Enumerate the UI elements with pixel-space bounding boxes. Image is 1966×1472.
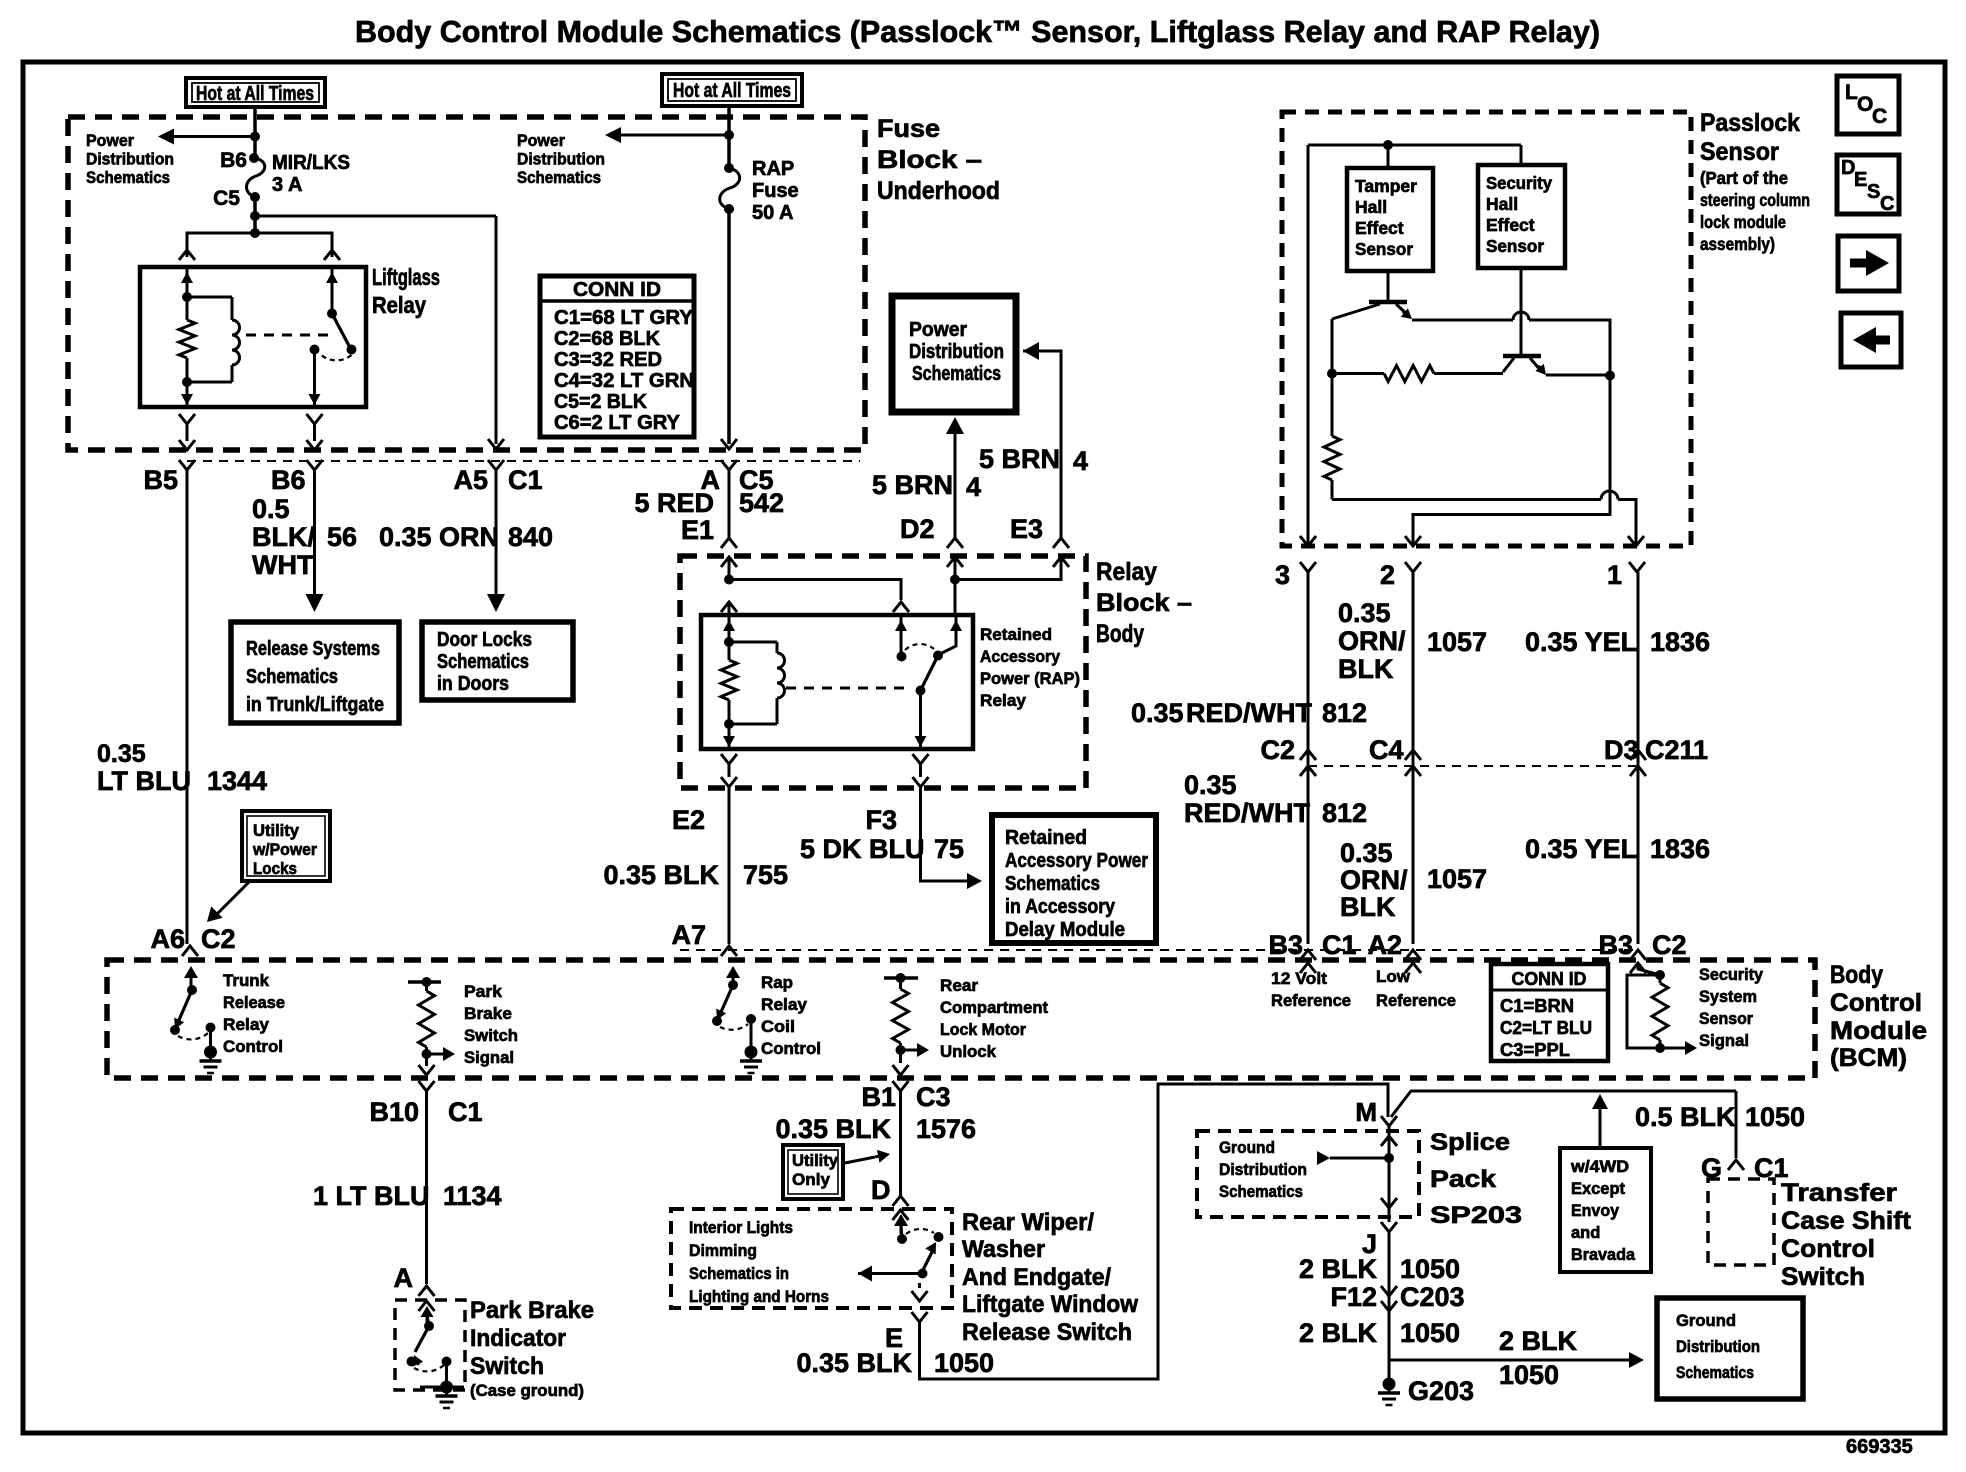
connector chevrons M xyxy=(1381,1136,1397,1146)
svg-text:Lighting and Horns: Lighting and Horns xyxy=(689,1287,829,1306)
wire label: 4 (D2) xyxy=(966,472,981,502)
label: pin 2 xyxy=(1380,560,1395,590)
label: F3 xyxy=(865,805,897,835)
wire label: 2 BLK (g203) xyxy=(1299,1318,1378,1348)
svg-text:M: M xyxy=(1355,1097,1377,1127)
wire: RAP switch to F3 exit xyxy=(915,691,927,750)
wire+arrow into power distribution box xyxy=(1023,342,1061,538)
svg-text:B3: B3 xyxy=(1268,930,1303,960)
svg-text:1836: 1836 xyxy=(1650,834,1710,864)
svg-text:Door Locks: Door Locks xyxy=(437,629,532,651)
tamper hall effect sensor box xyxy=(1347,168,1433,271)
arrow: utility note to trunk wire xyxy=(207,881,250,922)
label: B6 (fuse terminal) xyxy=(220,149,247,172)
svg-text:2: 2 xyxy=(1380,560,1395,590)
arrow: ground distribution to splice wire xyxy=(1317,1151,1394,1165)
svg-text:Rear: Rear xyxy=(940,976,978,995)
svg-text:Hot at All Times: Hot at All Times xyxy=(673,80,791,102)
wire label: 1057 (upper) xyxy=(1427,627,1487,657)
wire+arrow: to Power Distribution Schematics (left) xyxy=(158,129,255,145)
utility only box xyxy=(783,1145,843,1199)
connector D2 into relay block xyxy=(947,538,963,567)
svg-text:75: 75 xyxy=(934,834,964,864)
svg-text:Sensor: Sensor xyxy=(1700,138,1779,166)
wire: D2 down to RAP relay xyxy=(954,557,957,615)
wire label: 0.35 BLK xyxy=(603,860,719,890)
wire label: 755 xyxy=(743,860,788,890)
retained accessory power schematics box xyxy=(992,815,1156,943)
svg-text:Schematics: Schematics xyxy=(912,363,1001,385)
transistor Q1 left leg xyxy=(1332,304,1380,319)
svg-text:C1: C1 xyxy=(1322,930,1357,960)
junction dot left node xyxy=(1327,369,1337,379)
junction dot liftglass coil bottom xyxy=(182,377,192,387)
svg-text:12 Volt: 12 Volt xyxy=(1271,969,1327,988)
wire: E1 drop into relay box xyxy=(728,602,731,615)
svg-text:Release: Release xyxy=(223,993,285,1012)
transistor Q1 bar xyxy=(1369,300,1407,305)
label: C2 xyxy=(1260,735,1295,765)
label box: Hot at All Times (right) xyxy=(662,74,802,106)
connector arrow pin 1 xyxy=(1628,536,1644,546)
svg-text:Compartment: Compartment xyxy=(940,998,1048,1017)
connector chevron G/C1 xyxy=(1728,1160,1744,1170)
wire label: 1134 xyxy=(443,1181,502,1211)
arrow: utility only to B1 wire xyxy=(845,1150,890,1163)
wire: supply to security sensor xyxy=(1520,145,1523,165)
connector chevron into RAP relay coil side xyxy=(721,602,737,612)
svg-text:D3: D3 xyxy=(1604,735,1639,765)
RAP relay actuator dashed link xyxy=(786,687,908,690)
release systems schematics box xyxy=(231,622,399,723)
liftglass relay switch throw dashed arc xyxy=(319,353,352,360)
label: A6 xyxy=(150,924,185,954)
text: Park Brake Indicator Switch xyxy=(470,1297,594,1380)
svg-text:Delay Module: Delay Module xyxy=(1005,919,1125,941)
text: (Case ground) xyxy=(470,1382,584,1400)
park brake indicator switch dashed box xyxy=(395,1300,465,1390)
DESC button xyxy=(1837,155,1899,215)
wire label: 5 BRN (E3) xyxy=(979,444,1060,474)
text: Power Distribution Schematics (mid) xyxy=(517,131,605,187)
svg-text:1057: 1057 xyxy=(1427,627,1487,657)
svg-text:Signal: Signal xyxy=(1699,1031,1749,1050)
svg-text:Tamper: Tamper xyxy=(1355,176,1417,196)
label: C5 (rap) xyxy=(739,465,774,495)
wire label: 0.35 YEL (lower) xyxy=(1525,834,1637,864)
junction dot park brake signal xyxy=(422,1049,432,1059)
svg-text:Schematics: Schematics xyxy=(517,168,601,187)
svg-text:C2=68 BLK: C2=68 BLK xyxy=(554,328,661,350)
junction dot rear compartment xyxy=(896,1045,906,1055)
svg-text:w/Power: w/Power xyxy=(252,841,318,859)
wire: pin 3 down to BCM xyxy=(1307,572,1310,944)
wire label: 812 (lower) xyxy=(1322,798,1367,828)
label: C2 (a6) xyxy=(201,924,236,954)
svg-text:1 LT BLU: 1 LT BLU xyxy=(313,1181,430,1211)
junction dot passlock supply xyxy=(1383,140,1393,150)
svg-text:C211: C211 xyxy=(1645,735,1708,765)
svg-text:assembly): assembly) xyxy=(1700,234,1775,254)
svg-text:Distribution: Distribution xyxy=(1676,1337,1760,1356)
passlock lower-left resistor xyxy=(1324,374,1340,500)
svg-text:C6=2 LT GRY: C6=2 LT GRY xyxy=(554,412,681,434)
svg-text:Brake: Brake xyxy=(464,1004,512,1023)
label: C1 xyxy=(508,465,543,495)
label: E3 xyxy=(1010,514,1043,544)
connector Y A5/C1 xyxy=(488,460,504,470)
label: A (park brake) xyxy=(394,1263,414,1293)
text: Park Brake Switch Signal xyxy=(464,982,518,1067)
label: Body Control Module (BCM) xyxy=(1830,961,1927,1072)
svg-text:Coil: Coil xyxy=(761,1017,795,1036)
connector Y below relay B5 leg xyxy=(179,414,195,450)
rear compartment lock motor resistor xyxy=(884,973,918,1063)
connector arrow pin 3 xyxy=(1300,536,1316,546)
label: MIR/LKS 3 A xyxy=(272,152,350,196)
svg-text:O: O xyxy=(1857,93,1873,116)
svg-text:Retained: Retained xyxy=(1005,827,1087,849)
svg-text:1: 1 xyxy=(1607,560,1622,590)
label: Relay Block - Body xyxy=(1096,558,1192,648)
wire: A/C5 drop to relay block xyxy=(728,470,731,538)
svg-text:812: 812 xyxy=(1322,698,1367,728)
wire: A5 drop down to fuse block edge xyxy=(495,216,498,444)
svg-text:C5: C5 xyxy=(213,187,240,210)
wire: pin 2 down to BCM xyxy=(1412,572,1415,944)
svg-text:D2: D2 xyxy=(900,514,935,544)
BCM inline connector plane (thin dashed) xyxy=(680,949,1640,951)
svg-text:0.35 ORN: 0.35 ORN xyxy=(379,522,499,552)
connector D into wiper switch xyxy=(893,1196,909,1220)
svg-text:Splice: Splice xyxy=(1430,1129,1510,1156)
svg-text:Hall: Hall xyxy=(1355,197,1387,217)
wire label: 2 BLK (j) xyxy=(1299,1254,1378,1284)
wire: park brake to B10 xyxy=(419,1063,435,1075)
wire+arrow: F3 to retained accessory box xyxy=(921,787,983,889)
svg-text:56: 56 xyxy=(327,522,357,552)
svg-text:ORN/: ORN/ xyxy=(1340,865,1408,895)
park brake switch signal resistor xyxy=(408,977,441,1063)
svg-text:CONN ID: CONN ID xyxy=(573,279,661,301)
wire: pin 1 down to BCM xyxy=(1637,572,1640,944)
svg-text:Rear Wiper/: Rear Wiper/ xyxy=(962,1209,1094,1236)
label: pin 3 xyxy=(1275,560,1290,590)
svg-text:1050: 1050 xyxy=(1400,1318,1460,1348)
rap relay coil control switch xyxy=(712,966,756,1047)
svg-text:G203: G203 xyxy=(1408,1376,1474,1406)
liftglass relay switch blade xyxy=(332,314,351,350)
passlock bottom rail with hop xyxy=(1332,491,1636,546)
label: C3 xyxy=(916,1082,951,1112)
svg-text:0.35: 0.35 xyxy=(1184,770,1237,800)
svg-text:RED/WHT: RED/WHT xyxy=(1184,798,1310,828)
connector arrow A5 at fuse block exit xyxy=(488,439,504,449)
svg-text:Reference: Reference xyxy=(1376,991,1456,1010)
liftglass relay switch pivot dot xyxy=(327,309,337,319)
svg-text:Schematics: Schematics xyxy=(437,651,529,673)
svg-text:3: 3 xyxy=(1275,560,1290,590)
svg-text:E2: E2 xyxy=(672,805,705,835)
svg-text:50 A: 50 A xyxy=(752,202,794,224)
svg-text:Block –: Block – xyxy=(877,146,982,174)
svg-text:Hall: Hall xyxy=(1486,194,1518,214)
wire label: 2 BLK (branch) xyxy=(1499,1326,1578,1356)
fuse block - underhood dashed box xyxy=(68,117,865,450)
text: Rear Wiper/Washer And Endgate/Liftgate Window Release Switch xyxy=(962,1209,1138,1346)
connector A into park brake switch xyxy=(419,1286,435,1311)
transistor Q2 (security) bar xyxy=(1503,354,1541,359)
power distribution schematics box (mid right) xyxy=(892,296,1016,412)
svg-text:Rap: Rap xyxy=(761,973,793,992)
svg-text:B3: B3 xyxy=(1598,930,1633,960)
svg-text:Control: Control xyxy=(1830,989,1922,1017)
CONN ID table (BCM) xyxy=(1491,964,1608,1061)
CONN ID table (fuse block) xyxy=(540,276,694,437)
wire label: 0.35 LT BLU xyxy=(97,740,191,796)
svg-text:Schematics: Schematics xyxy=(86,168,170,187)
svg-text:Park: Park xyxy=(464,982,503,1001)
wire: hot feed 2 down xyxy=(727,106,731,168)
svg-text:C2: C2 xyxy=(1260,735,1295,765)
svg-text:C1: C1 xyxy=(508,465,543,495)
svg-text:Hot at All Times: Hot at All Times xyxy=(196,83,314,105)
wire label: 5 BRN (D2) xyxy=(872,470,953,500)
connector Y B1/C3 xyxy=(893,1081,909,1091)
wire: B1 down to rear wiper switch xyxy=(899,1091,902,1196)
label: A7 xyxy=(671,920,706,950)
wire: supply to tamper sensor xyxy=(1387,145,1390,168)
connector chevrons A2 at BCM xyxy=(1405,950,1421,973)
text: Trunk Release Relay Control xyxy=(223,971,285,1056)
RAP relay box xyxy=(701,615,973,749)
RAP relay switch pivot dot xyxy=(916,686,926,696)
svg-text:E: E xyxy=(1854,169,1867,191)
svg-text:Effect: Effect xyxy=(1486,215,1535,235)
svg-text:1050: 1050 xyxy=(1745,1102,1805,1132)
svg-text:Signal: Signal xyxy=(464,1048,514,1067)
utility w/power locks box xyxy=(242,811,330,881)
wire label: 542 xyxy=(739,488,784,518)
inline connector plane (thin dashed) xyxy=(187,460,860,462)
svg-text:C3=32 RED: C3=32 RED xyxy=(554,349,662,371)
svg-text:F12: F12 xyxy=(1330,1282,1377,1312)
text: Ground Distribution Schematics (splice) xyxy=(1219,1138,1307,1201)
label: Retained Accessory Power (RAP) Relay xyxy=(980,625,1080,710)
body control module dashed box xyxy=(107,960,1815,1078)
wire label: 1836 (lower) xyxy=(1650,834,1710,864)
interior lights dimming dashed box xyxy=(671,1209,952,1308)
label: E2 xyxy=(672,805,705,835)
label: G xyxy=(1701,1153,1722,1183)
RAP relay switch common wire xyxy=(895,615,907,656)
connector E3 into relay block xyxy=(1053,538,1069,567)
svg-text:w/4WD: w/4WD xyxy=(1570,1158,1629,1176)
svg-text:Power: Power xyxy=(517,131,565,150)
svg-text:Relay: Relay xyxy=(980,691,1027,710)
label: pin 1 xyxy=(1607,560,1622,590)
svg-text:B1: B1 xyxy=(861,1082,896,1112)
svg-text:Accessory: Accessory xyxy=(980,647,1060,666)
svg-text:Sensor: Sensor xyxy=(1699,1009,1753,1028)
liftglass relay switch common feed xyxy=(326,267,338,313)
label: F12 xyxy=(1330,1282,1377,1312)
svg-text:1576: 1576 xyxy=(916,1114,976,1144)
svg-text:Power: Power xyxy=(86,131,134,150)
wire label: 1050 (g) xyxy=(1745,1102,1805,1132)
connector chevron into RAP relay switch xyxy=(893,602,909,612)
svg-text:C3: C3 xyxy=(916,1082,951,1112)
connector Y pin 1 xyxy=(1629,562,1645,572)
svg-text:Control: Control xyxy=(1781,1235,1875,1263)
wire: Q1 collector rail xyxy=(1412,312,1610,376)
wire: liftglass output to B6 exit xyxy=(309,350,321,408)
text: Transfer Case Shift Control Switch xyxy=(1781,1179,1912,1291)
connector chevrons C4 xyxy=(1405,750,1421,776)
label: B10 xyxy=(369,1097,419,1127)
transistor Q2 right leg with emitter arrow xyxy=(1530,358,1546,375)
wire: branch rail to liftglass relay xyxy=(187,233,332,257)
svg-text:B10: B10 xyxy=(369,1097,419,1127)
svg-text:Locks: Locks xyxy=(253,860,297,878)
trunk release relay control switch xyxy=(170,966,216,1047)
text: Interior Lights Dimming Schematics in Lighting and Horns xyxy=(689,1218,829,1306)
svg-text:BLK: BLK xyxy=(1338,654,1394,684)
svg-text:Ground: Ground xyxy=(1219,1138,1275,1157)
wire: node down to pin 2 route xyxy=(1413,376,1610,547)
liftglass relay output contact dot xyxy=(310,345,320,355)
wire: E1 into RAP relay xyxy=(728,557,731,580)
label: E xyxy=(885,1323,903,1353)
RAP relay switch feed xyxy=(938,615,962,655)
wire+arrow: to Power Distribution Schematics (mid) xyxy=(605,127,729,143)
svg-text:in Trunk/Liftgate: in Trunk/Liftgate xyxy=(246,694,384,716)
svg-text:0.35 BLK: 0.35 BLK xyxy=(603,860,719,890)
svg-text:Reference: Reference xyxy=(1271,991,1351,1010)
svg-text:S: S xyxy=(1867,181,1880,203)
svg-text:C1: C1 xyxy=(448,1097,483,1127)
text: 12 Volt Reference xyxy=(1271,969,1351,1010)
wire label: 0.35 BLK (1576) xyxy=(775,1114,891,1144)
wire label: 1576 xyxy=(916,1114,976,1144)
wire label: 812 (upper) xyxy=(1322,698,1367,728)
svg-text:812: 812 xyxy=(1322,798,1367,828)
wire: J down to G203 xyxy=(1388,1232,1391,1384)
wire label: 5 DK BLU xyxy=(800,834,925,864)
wire label: 1057 (lower) xyxy=(1427,864,1487,894)
svg-text:C4=32 LT GRN: C4=32 LT GRN xyxy=(554,370,694,392)
liftglass relay switch blade end dot xyxy=(347,345,357,355)
svg-text:Accessory Power: Accessory Power xyxy=(1005,850,1148,872)
wire: fuse C5 down xyxy=(253,197,257,233)
next-page arrow button xyxy=(1838,236,1899,291)
svg-text:RED/WHT: RED/WHT xyxy=(1186,698,1312,728)
svg-text:A: A xyxy=(394,1263,414,1293)
svg-text:Control: Control xyxy=(223,1037,283,1056)
svg-text:B6: B6 xyxy=(220,149,247,172)
wire label: 1836 (upper) xyxy=(1650,627,1710,657)
svg-text:1057: 1057 xyxy=(1427,864,1487,894)
svg-text:Dimming: Dimming xyxy=(689,1241,757,1260)
svg-text:And Endgate/: And Endgate/ xyxy=(962,1264,1111,1291)
svg-text:Fuse: Fuse xyxy=(877,115,940,143)
label: C1 (b10) xyxy=(448,1097,483,1127)
svg-text:Liftglass: Liftglass xyxy=(372,264,440,290)
svg-text:C4: C4 xyxy=(1369,735,1404,765)
svg-text:Schematics in: Schematics in xyxy=(689,1264,789,1283)
svg-text:1050: 1050 xyxy=(1499,1360,1559,1390)
svg-text:1050: 1050 xyxy=(934,1348,994,1378)
transistor Q2 left leg xyxy=(1503,358,1514,372)
svg-text:Sensor: Sensor xyxy=(1355,239,1413,259)
svg-text:System: System xyxy=(1699,987,1757,1006)
svg-text:CONN ID: CONN ID xyxy=(1512,969,1587,989)
svg-text:Ground: Ground xyxy=(1676,1311,1736,1330)
svg-text:669335: 669335 xyxy=(1846,1436,1913,1458)
LOC button xyxy=(1837,76,1899,134)
svg-text:1836: 1836 xyxy=(1650,627,1710,657)
label: D3 xyxy=(1604,735,1639,765)
svg-text:C2: C2 xyxy=(1652,930,1687,960)
wire: wiper switch to E xyxy=(912,1283,928,1301)
svg-text:0.35 YEL: 0.35 YEL xyxy=(1525,834,1637,864)
svg-text:C2=LT BLU: C2=LT BLU xyxy=(1500,1017,1592,1038)
wire label: 0.35RED/WHT (upper) xyxy=(1131,698,1312,728)
transistor Q1 (tamper) base lead xyxy=(1387,271,1390,302)
text: Security System Sensor Signal xyxy=(1699,965,1764,1050)
svg-text:Security: Security xyxy=(1486,173,1552,193)
label: E1 xyxy=(681,515,714,545)
wire label: 56 xyxy=(327,522,357,552)
wire: B5 drop to BCM xyxy=(186,470,189,944)
svg-text:(Case ground): (Case ground) xyxy=(470,1382,584,1400)
svg-text:RAP: RAP xyxy=(752,158,794,180)
wire: Q2 emitter to node xyxy=(1546,374,1610,377)
svg-text:Body: Body xyxy=(1830,961,1883,989)
inline connector plane C2/C4/D3 (thin dashed) xyxy=(1308,765,1640,767)
label: C2 (bcm) xyxy=(1652,930,1687,960)
svg-text:BLK/: BLK/ xyxy=(252,522,315,552)
wire label: 840 xyxy=(508,522,553,552)
connector Y B6 xyxy=(307,460,323,470)
prev-page arrow button xyxy=(1841,313,1901,367)
svg-text:C: C xyxy=(1872,105,1887,128)
label: Passlock Sensor (part of steering column) xyxy=(1700,109,1810,254)
svg-text:Distribution: Distribution xyxy=(86,150,174,169)
RAP relay switch blade xyxy=(921,656,939,691)
connector Y J xyxy=(1381,1222,1397,1232)
wire: supply rail down pin 3 xyxy=(1307,145,1310,546)
connector Y B10/C1 xyxy=(419,1081,435,1103)
label: A2 xyxy=(1367,930,1402,960)
svg-text:B6: B6 xyxy=(271,465,306,495)
svg-text:Liftgate Window: Liftgate Window xyxy=(962,1291,1138,1318)
svg-text:Schematics: Schematics xyxy=(1676,1363,1754,1382)
wire: 0.5 BLK down to G/C1 xyxy=(1735,1091,1738,1158)
relay block - body dashed box xyxy=(680,556,1086,788)
svg-text:5 RED: 5 RED xyxy=(634,488,714,518)
text: Low Reference xyxy=(1376,967,1456,1010)
svg-text:Park Brake: Park Brake xyxy=(470,1297,594,1324)
label box: Hot at All Times (left) xyxy=(186,78,325,107)
svg-text:Passlock: Passlock xyxy=(1700,109,1800,137)
svg-text:C203: C203 xyxy=(1400,1282,1465,1312)
svg-text:Security: Security xyxy=(1699,965,1764,984)
connector chevrons into liftglass relay right xyxy=(324,250,340,260)
wire label: 75 xyxy=(934,834,964,864)
security hall effect sensor box xyxy=(1478,165,1565,268)
junction dot RAP coil top xyxy=(724,637,734,647)
